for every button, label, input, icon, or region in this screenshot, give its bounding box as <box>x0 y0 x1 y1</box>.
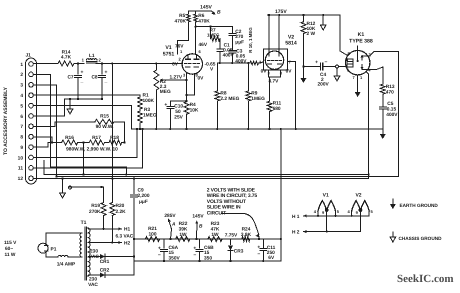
svg-text:V1: V1 <box>165 45 171 51</box>
svg-text:0.15: 0.15 <box>387 107 397 113</box>
wire pin8 to R16 row <box>33 137 53 144</box>
svg-text:285V: 285V <box>164 213 176 219</box>
svg-text:0V: 0V <box>261 69 268 75</box>
svg-text:2: 2 <box>20 72 23 78</box>
svg-text:175V: 175V <box>275 9 287 15</box>
label K1 TYPE 388 <box>349 32 373 45</box>
svg-text:6: 6 <box>20 114 23 120</box>
svg-text:R1: R1 <box>143 93 149 99</box>
wire V1 cathode1 <box>186 73 188 102</box>
svg-text:R17: R17 <box>92 135 101 141</box>
svg-text:K1: K1 <box>358 32 365 38</box>
wire V2 cathodes <box>269 70 281 101</box>
svg-text:μμF: μμF <box>235 40 244 46</box>
earth ground below R12 <box>301 73 307 83</box>
svg-text:R 10, 1 MEG: R 10, 1 MEG <box>248 27 253 53</box>
svg-text:230: 230 <box>90 249 98 255</box>
wire pin7 to R15 <box>33 122 95 127</box>
svg-text:7.75V: 7.75V <box>225 233 238 239</box>
wire R19 to H1 tap <box>103 216 105 230</box>
bus mid long <box>57 176 399 178</box>
bottom bus <box>134 260 281 262</box>
capacitor C11 <box>257 239 275 261</box>
capacitor C9 <box>131 179 150 239</box>
svg-text:0V: 0V <box>198 76 205 82</box>
svg-text:60~: 60~ <box>5 246 13 252</box>
svg-text:C7: C7 <box>67 75 73 81</box>
resistor R20 <box>110 179 126 216</box>
wire V1 cathode2 <box>186 74 195 97</box>
wire pin1 to V1 grid <box>33 62 182 64</box>
svg-text:R3: R3 <box>144 107 150 113</box>
svg-text:1MEG: 1MEG <box>207 32 220 37</box>
svg-text:H2: H2 <box>124 240 130 246</box>
wire K1 pin5 down <box>366 72 370 179</box>
svg-text:+: + <box>164 102 167 108</box>
tube V2 with shield box <box>264 49 288 70</box>
svg-text:230: 230 <box>89 277 97 283</box>
inductor L1 <box>82 53 102 63</box>
svg-text:R14: R14 <box>62 50 71 56</box>
svg-text:25V: 25V <box>174 115 183 121</box>
wire H1 tap <box>89 227 131 233</box>
svg-text:1W: 1W <box>211 232 219 238</box>
wire fuse to primary <box>68 256 82 258</box>
svg-text:P1: P1 <box>51 247 57 253</box>
svg-text:SeekIC.com: SeekIC.com <box>397 273 454 285</box>
wire 175V to K1 pin8 <box>340 15 348 56</box>
svg-text:C8: C8 <box>91 75 97 81</box>
svg-text:EARTH GROUND: EARTH GROUND <box>400 203 439 208</box>
svg-text:R5: R5 <box>179 13 185 19</box>
wire V2 grid line <box>217 62 250 64</box>
resistor R1 <box>138 93 155 110</box>
label 230 VAC upper <box>89 249 99 261</box>
wire pin6 to ground line <box>33 99 64 116</box>
svg-text:145V: 145V <box>192 214 204 220</box>
bus A <box>51 166 127 168</box>
svg-text:47K: 47K <box>211 227 220 233</box>
wire R18 right <box>122 142 125 144</box>
svg-text:MEG: MEG <box>160 89 171 95</box>
legend earth ground <box>390 199 438 209</box>
svg-text:VAC: VAC <box>88 282 98 288</box>
svg-text:270K: 270K <box>89 209 101 215</box>
wire R16/R17 junction to bus <box>82 143 84 176</box>
label V2 5814 <box>285 35 297 47</box>
svg-text:C5: C5 <box>387 101 393 107</box>
label 6.3 VAC <box>116 234 134 240</box>
svg-text:400V: 400V <box>223 53 235 59</box>
svg-text:R13: R13 <box>386 84 395 90</box>
R2 wiper wire <box>159 74 187 81</box>
resistor R15 <box>95 114 114 131</box>
resistor R12 <box>301 15 316 37</box>
wire pin2 down <box>33 74 50 167</box>
earth ground K1 pin7 <box>355 87 361 97</box>
svg-text:−: − <box>325 60 328 66</box>
svg-text:6.3 VAC: 6.3 VAC <box>116 234 134 240</box>
legend chassis ground <box>390 232 442 242</box>
wire pin4 to R1 <box>33 94 140 96</box>
svg-text:1/4 AMP: 1/4 AMP <box>57 262 76 268</box>
wire right vertical <box>280 129 282 261</box>
transformer T1 primary <box>80 233 82 257</box>
capacitor C8 <box>91 64 107 100</box>
capacitor C7 <box>67 64 83 100</box>
resistor R7 <box>207 27 220 42</box>
svg-text:8.7V: 8.7V <box>269 79 280 85</box>
svg-text:145V: 145V <box>200 5 212 11</box>
svg-text:2.2K: 2.2K <box>116 209 127 215</box>
heater V2 <box>347 201 373 215</box>
V2 pin labels <box>259 60 292 76</box>
svg-text:R20: R20 <box>116 203 125 209</box>
svg-text:76V: 76V <box>175 44 184 50</box>
svg-text:1.27V: 1.27V <box>170 74 183 80</box>
svg-text:H 1: H 1 <box>292 214 300 220</box>
label 115V 60 11W <box>4 240 17 258</box>
label 7.75V <box>225 233 238 239</box>
diode CR1 <box>89 254 135 265</box>
label V1 5751 <box>163 45 175 58</box>
wire 145V rail <box>188 5 221 16</box>
svg-text:980W.W, 2,990 W.W. 10: 980W.W, 2,990 W.W. 10 <box>66 147 118 153</box>
svg-text:4: 4 <box>20 93 23 99</box>
svg-text:7: 7 <box>20 124 23 130</box>
svg-text:15: 15 <box>169 250 175 256</box>
svg-text:11: 11 <box>18 166 23 172</box>
svg-text:CR3: CR3 <box>234 249 244 255</box>
svg-text:470K: 470K <box>198 19 210 25</box>
svg-text:R8: R8 <box>220 91 226 97</box>
resistor R6 <box>194 11 211 24</box>
wire CR junction vertical <box>133 239 135 275</box>
svg-text:CR2: CR2 <box>100 268 110 274</box>
capacitor C4 <box>304 60 347 88</box>
resistor R8 <box>215 63 240 129</box>
svg-text:B: B <box>199 224 203 230</box>
svg-text:3.9K: 3.9K <box>241 232 252 238</box>
resistor R23 <box>208 221 222 242</box>
svg-text:200V: 200V <box>318 82 330 88</box>
diode CR2 <box>89 268 134 278</box>
wire K1 pin2 <box>370 52 399 177</box>
svg-text:R22: R22 <box>179 221 188 227</box>
note text slide wire <box>207 188 258 217</box>
svg-text:39K: 39K <box>179 227 188 233</box>
main bottom bus <box>133 238 282 240</box>
capacitor C10 <box>164 101 186 129</box>
label TO ACCESSORY ASSEMBLY <box>3 86 9 155</box>
H1 line right <box>292 211 369 220</box>
wire V2 grid right <box>288 62 296 129</box>
label resistor values 980WW <box>66 147 118 153</box>
wire K1 pin7 <box>357 75 359 87</box>
wire plate2 to C2 <box>196 26 233 28</box>
capacitor C6B <box>193 239 214 262</box>
svg-text:TYPE 388: TYPE 388 <box>349 39 373 45</box>
resistor R5 <box>175 11 191 24</box>
svg-text:5751: 5751 <box>163 52 175 58</box>
svg-text:10: 10 <box>18 155 24 161</box>
wire pin3 down <box>33 85 57 178</box>
heater V1 <box>314 201 340 215</box>
node A 285V <box>164 213 176 239</box>
V1 voltage labels <box>172 42 216 82</box>
resistor R16 <box>62 135 78 145</box>
svg-text:L1: L1 <box>89 53 95 59</box>
svg-text:R19: R19 <box>91 203 100 209</box>
svg-text:10K: 10K <box>190 108 199 114</box>
H2 line right <box>292 212 360 236</box>
capacitor C2 <box>229 27 244 50</box>
mid bus <box>131 128 382 130</box>
svg-text:8: 8 <box>20 135 23 141</box>
chassis ground below C7 line <box>67 98 73 114</box>
wire to R19 <box>103 187 105 203</box>
wire C7/C8 ground line <box>65 98 104 100</box>
svg-text:100: 100 <box>148 232 156 238</box>
svg-text:C10: C10 <box>174 104 183 110</box>
resistor R9 <box>246 63 265 129</box>
svg-text:12: 12 <box>18 176 24 182</box>
wire V2 plates <box>269 15 279 56</box>
wire R19 feed <box>70 186 104 188</box>
svg-text:R4: R4 <box>190 102 196 108</box>
resistor R11 <box>267 101 281 130</box>
svg-text:−: − <box>257 252 260 258</box>
svg-text:R18: R18 <box>110 135 119 141</box>
svg-text:J1: J1 <box>26 53 32 59</box>
svg-text:μμF: μμF <box>139 199 148 205</box>
resistor R10 <box>248 27 264 65</box>
plug P1 <box>38 243 57 253</box>
wire pin9 to R16 <box>33 143 61 148</box>
V2 voltage labels <box>261 69 293 85</box>
svg-text:470K: 470K <box>175 18 187 24</box>
svg-text:6V: 6V <box>268 255 275 261</box>
svg-text:0V: 0V <box>172 62 179 68</box>
terminal circle on R19 line <box>69 186 72 189</box>
resistor R21 <box>145 226 159 242</box>
wire R6 to V1 plate2 <box>195 22 197 54</box>
wire pin11 to mid bus <box>33 128 143 168</box>
connector J1 <box>18 53 37 185</box>
svg-text:+: + <box>105 70 108 76</box>
label T1 <box>81 220 87 226</box>
svg-text:50: 50 <box>175 109 181 115</box>
wire R20 to H2 tap <box>111 216 113 244</box>
transformer T1 secondary <box>88 228 90 276</box>
svg-text:46V: 46V <box>199 42 208 48</box>
resistor R13 <box>380 84 395 96</box>
wire R5 to V1 plate <box>178 22 189 54</box>
svg-text:T1: T1 <box>81 220 87 226</box>
label 230 VAC lower <box>88 277 98 289</box>
svg-text:9: 9 <box>20 145 23 151</box>
V1 pin labels <box>179 49 202 78</box>
svg-text:R24: R24 <box>242 227 251 233</box>
svg-text:−: − <box>193 253 196 259</box>
bus B long <box>44 161 369 175</box>
resistor R19 <box>89 203 106 216</box>
capacitor C1 <box>217 39 235 63</box>
note pointer <box>243 214 260 239</box>
svg-text:R6: R6 <box>198 13 204 19</box>
svg-text:470: 470 <box>386 90 394 96</box>
wire P1 bottom to fuse <box>46 251 58 257</box>
SeekIC.com logo <box>397 273 454 285</box>
resistor R17 <box>89 135 104 145</box>
K1 pin labels <box>346 51 372 80</box>
label V2 heater <box>355 193 361 199</box>
svg-text:H 2: H 2 <box>292 230 300 236</box>
svg-text:+: + <box>257 245 260 251</box>
svg-text:1MEG: 1MEG <box>251 96 265 102</box>
svg-text:115 V: 115 V <box>4 240 17 246</box>
node B 145V <box>192 214 204 240</box>
diode CR3 <box>228 239 244 261</box>
svg-text:11 W: 11 W <box>5 252 16 258</box>
transformer T1 core <box>85 227 87 280</box>
svg-text:−: − <box>158 253 161 259</box>
svg-text:R15: R15 <box>100 114 109 120</box>
svg-text:2.2 MEG: 2.2 MEG <box>220 96 239 102</box>
svg-text:5: 5 <box>20 103 23 109</box>
svg-text:_: _ <box>104 78 108 84</box>
svg-text:+: + <box>81 70 84 76</box>
svg-text:1MEG: 1MEG <box>143 113 157 119</box>
svg-text:5814: 5814 <box>285 41 297 47</box>
earth ground mid bus right <box>380 129 386 139</box>
svg-text:V2: V2 <box>355 193 361 199</box>
svg-text:R9: R9 <box>251 91 257 97</box>
svg-text:+: + <box>193 246 196 252</box>
svg-text:H1: H1 <box>124 227 130 233</box>
svg-text:1: 1 <box>20 62 23 68</box>
resistor R22 <box>176 221 190 242</box>
svg-text:B: B <box>217 10 221 16</box>
fuse 1/4AMP <box>57 255 76 267</box>
wire 175V rail <box>268 9 341 16</box>
capacitor C5 <box>379 94 398 129</box>
svg-text:R11: R11 <box>273 101 282 107</box>
bus D long from pin12 <box>33 178 368 180</box>
svg-text:0V: 0V <box>286 69 293 75</box>
relay K1 <box>346 46 370 75</box>
wire K1 pin4 to R13 <box>369 67 382 84</box>
svg-text:100K: 100K <box>143 98 155 104</box>
svg-text:2,200: 2,200 <box>138 193 150 199</box>
wire R15 right down <box>114 122 126 144</box>
potentiometer R2 <box>154 64 171 130</box>
svg-text:A: A <box>171 222 176 228</box>
wire R16-R17 <box>78 141 90 143</box>
wire R12 down <box>302 34 304 73</box>
label V1 heater <box>323 193 329 199</box>
svg-text:1W: 1W <box>179 232 187 238</box>
svg-text:4.7K: 4.7K <box>61 55 72 61</box>
svg-text:680: 680 <box>273 106 281 112</box>
vertical wire x112 <box>111 64 113 179</box>
svg-text:15: 15 <box>204 250 210 256</box>
svg-text:_: _ <box>80 78 84 84</box>
resistor R18 <box>109 135 122 145</box>
svg-text:C9: C9 <box>138 188 144 194</box>
wire H2 tap <box>89 240 131 246</box>
resistor R3 <box>138 107 157 129</box>
chassis ground below bus <box>60 178 66 199</box>
svg-text:+: + <box>158 246 161 252</box>
svg-text:R21: R21 <box>148 226 157 232</box>
svg-text:R16: R16 <box>65 135 74 141</box>
wire R17-R18 <box>105 142 110 144</box>
svg-text:400V: 400V <box>386 112 398 118</box>
wire P1 top to primary <box>46 233 82 246</box>
svg-text:90 W.W.: 90 W.W. <box>96 124 114 130</box>
chassis ground C4 terminal <box>334 68 340 81</box>
svg-text:CHASSIS GROUND: CHASSIS GROUND <box>399 236 443 241</box>
svg-text:270: 270 <box>235 34 243 40</box>
svg-text:3: 3 <box>20 83 23 89</box>
svg-text:CR1: CR1 <box>100 259 110 265</box>
svg-text:TO ACCESSORY ASSEMBLY: TO ACCESSORY ASSEMBLY <box>3 86 9 155</box>
resistor R4 <box>184 102 199 129</box>
svg-text:2 W: 2 W <box>307 31 316 37</box>
wire pin10 to mid bus <box>33 128 138 158</box>
svg-text:V1: V1 <box>323 193 329 199</box>
resistor R14 <box>58 50 74 66</box>
resistor R24 <box>241 227 252 242</box>
tube V1 <box>182 54 202 74</box>
capacitor C6A <box>158 239 181 262</box>
chassis ground top <box>320 15 326 30</box>
svg-text:R23: R23 <box>211 221 220 227</box>
svg-text:400V: 400V <box>235 59 247 65</box>
svg-text:+: + <box>315 60 318 66</box>
capacitor C3 <box>229 49 248 65</box>
bus A jog <box>125 167 127 176</box>
wire pin5 to bus <box>33 106 131 129</box>
